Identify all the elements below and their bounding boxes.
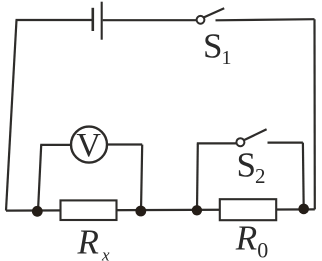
svg-text:0: 0 (257, 238, 268, 261)
svg-text:2: 2 (255, 164, 266, 188)
svg-text:x: x (101, 245, 110, 261)
svg-text:S: S (237, 145, 256, 184)
svg-text:V: V (76, 127, 101, 164)
svg-text:R: R (77, 222, 99, 261)
svg-text:1: 1 (222, 47, 232, 69)
svg-text:S: S (203, 27, 222, 66)
svg-text:R: R (235, 218, 257, 257)
